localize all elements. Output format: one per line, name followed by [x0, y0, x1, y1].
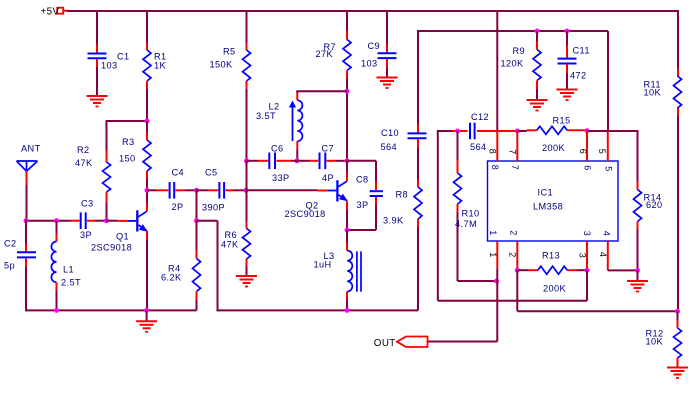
wire C12 left [437, 130, 439, 301]
junction R15-pin6 [585, 128, 590, 133]
power port +5V [57, 8, 63, 14]
svg-text:3: 3 [578, 253, 588, 258]
wire R3 bottom [146, 171, 148, 179]
svg-text:OUT: OUT [374, 338, 396, 349]
svg-text:C1: C1 [117, 52, 130, 62]
ground main [146, 310, 148, 321]
junction Q1 emitter ground [144, 308, 149, 313]
wire C4 left lead [147, 189, 156, 191]
wire R8 top lead [417, 179, 419, 187]
transistor Q2 2SC9018 [327, 190, 336, 192]
wire R12 bottom [677, 358, 679, 366]
wire R15 left lead [517, 130, 527, 132]
wire antenna stem [26, 171, 28, 185]
junction C12-pin7 [515, 129, 520, 134]
wire input node row [26, 220, 71, 222]
svg-text:R8: R8 [396, 190, 409, 200]
svg-text:C5: C5 [205, 168, 218, 178]
wire R15 to R14 [587, 130, 638, 132]
svg-text:3P: 3P [357, 200, 369, 210]
junction antenna-C2 [24, 218, 29, 223]
wire R4 bottom [196, 292, 198, 301]
svg-text:5p: 5p [4, 261, 15, 271]
junction L1 bottom [54, 308, 59, 313]
svg-text:47K: 47K [221, 240, 239, 250]
inductor L3 [347, 251, 352, 292]
inductor L2 [297, 100, 302, 141]
wire R11 top [677, 10, 679, 68]
svg-text:2: 2 [509, 230, 519, 235]
power rail +5V (top) [67, 10, 678, 12]
wire C4 right lead [176, 189, 185, 191]
wire R1 top [146, 11, 148, 43]
junction L2-C6-C7 [295, 158, 300, 163]
svg-text:8: 8 [488, 149, 498, 154]
ground under C11 [557, 89, 578, 91]
junction R7-L2 [345, 89, 350, 94]
antenna symbol [17, 160, 38, 162]
wire R2 top [106, 120, 108, 151]
wire C7 right lead [327, 160, 336, 162]
junction R4 top [194, 218, 199, 223]
wire L3 top [346, 230, 348, 243]
capacitor C4 [169, 182, 171, 199]
svg-text:150: 150 [119, 154, 136, 164]
svg-text:5: 5 [597, 149, 607, 154]
resistor R5 [243, 50, 251, 81]
wire R2 bottom [106, 192, 108, 203]
svg-text:6.2K: 6.2K [161, 273, 182, 283]
capacitor C8 [370, 190, 383, 192]
svg-text:3.5T: 3.5T [256, 111, 276, 121]
resistor R3 [143, 140, 151, 171]
wire C9 top [386, 11, 388, 44]
svg-text:C4: C4 [172, 168, 185, 178]
wire pin 6 [586, 131, 588, 161]
junction R11-R12 node [675, 309, 680, 314]
resistor R10 [454, 173, 462, 204]
wire node R1-R2-R3 [107, 120, 149, 122]
capacitor C11 [558, 58, 577, 60]
wire R9 top [536, 31, 538, 41]
ground under R12 [667, 367, 688, 369]
wire R5 top [246, 11, 248, 43]
svg-text:3P: 3P [80, 230, 92, 240]
svg-text:7: 7 [508, 149, 518, 154]
svg-text:2P: 2P [172, 202, 184, 212]
wire OUT [496, 281, 498, 342]
inductor L2 arrow [292, 107, 294, 141]
svg-text:R15: R15 [553, 116, 571, 126]
wire Q2 base wire [246, 189, 317, 191]
svg-text:6: 6 [578, 149, 588, 154]
resistor R9 [533, 50, 541, 81]
wire pin 7 [516, 131, 518, 161]
wire R5 bottom [246, 81, 248, 89]
svg-text:4: 4 [598, 252, 608, 257]
svg-text:4: 4 [601, 231, 611, 236]
wire C6 right lead [276, 160, 291, 162]
wire C10-R8 [417, 139, 419, 147]
wire R10 top [457, 131, 459, 161]
wire C6 left lead [247, 160, 259, 162]
svg-text:4P: 4P [322, 173, 334, 183]
capacitor C10 [408, 132, 427, 134]
wire Q1 base lead [107, 220, 118, 222]
svg-text:1K: 1K [154, 61, 167, 71]
wire L1 bottom [56, 282, 58, 290]
capacitor C9 [378, 52, 397, 54]
junction C5-R5-R6-Q2 [244, 188, 249, 193]
wire C3 left lead [71, 220, 80, 222]
wire R13 right lead [567, 269, 577, 271]
svg-text:3: 3 [582, 231, 592, 236]
svg-text:C7: C7 [322, 144, 335, 154]
svg-text:C9: C9 [368, 41, 381, 51]
wire L2 top row [296, 90, 347, 92]
wire C8 bottom [375, 197, 377, 205]
wire Q2 collector [346, 161, 348, 173]
svg-text:390P: 390P [202, 203, 225, 213]
resistor R14 [634, 190, 642, 222]
svg-text:4.7M: 4.7M [455, 219, 477, 229]
wire R13 left lead [517, 269, 528, 271]
transistor Q1 2SC9018 [127, 220, 136, 222]
svg-text:L2: L2 [269, 102, 280, 112]
resistor R13 [538, 266, 568, 274]
svg-text:1: 1 [488, 252, 498, 257]
ground under R6 [236, 275, 257, 277]
op-amp IC1 LM358 box [488, 161, 619, 241]
wire L2 bottom [296, 141, 298, 149]
wire C1 top [96, 11, 98, 45]
wire R4 top lead [196, 221, 198, 250]
wire R9 bottom [536, 81, 538, 90]
wire R14 top [637, 130, 639, 182]
svg-text:150K: 150K [210, 60, 234, 70]
svg-text:564: 564 [470, 142, 487, 152]
junction C7-R7-Q2 [345, 158, 350, 163]
ground rail left [26, 309, 197, 311]
svg-text:+5V: +5V [41, 6, 60, 17]
wire pin2 to R12 node [516, 270, 518, 311]
svg-text:2SC9018: 2SC9018 [285, 209, 326, 219]
resistor R15 [537, 126, 567, 134]
wire R3 top [146, 121, 148, 132]
svg-text:3.9K: 3.9K [383, 216, 404, 226]
wire C3 right lead [87, 220, 95, 222]
svg-text:C11: C11 [573, 46, 590, 56]
wire C12 right [477, 130, 517, 132]
resistor R4 [193, 259, 201, 292]
svg-text:27K: 27K [316, 49, 334, 59]
resistor R12 [674, 328, 682, 358]
svg-text:LM358: LM358 [533, 202, 563, 212]
junction C3-R2-Q1 base [104, 218, 109, 223]
svg-text:IC1: IC1 [538, 188, 554, 198]
svg-text:200K: 200K [543, 284, 567, 294]
wire R7 bottom [346, 71, 348, 80]
wire R5-R6 column [246, 161, 248, 191]
wire Q1 collector [146, 190, 148, 203]
junction R10-pin1 [494, 279, 499, 284]
resistor R11 [674, 76, 682, 108]
junction C12-R10 [455, 129, 460, 134]
capacitor C2 [17, 251, 36, 253]
svg-text:7: 7 [510, 165, 520, 170]
wire R4 node [196, 189, 198, 220]
ground under R9 [527, 99, 548, 101]
svg-text:1uH: 1uH [314, 260, 332, 270]
svg-text:120K: 120K [501, 59, 525, 69]
svg-text:C8: C8 [356, 175, 369, 185]
ground under C9 [377, 77, 398, 79]
wire C2 bottom [25, 259, 27, 267]
junction rail2-R9 [535, 29, 540, 34]
svg-text:564: 564 [381, 142, 398, 152]
wire C9 bottom [386, 59, 388, 67]
junction pin3-R13 [585, 268, 590, 273]
wire pin 2 [516, 241, 518, 270]
svg-text:R2: R2 [77, 145, 90, 155]
junction L3 ground [345, 308, 350, 313]
svg-text:5: 5 [604, 166, 614, 171]
wire C11 top [566, 31, 568, 45]
svg-text:ANT: ANT [21, 144, 41, 154]
svg-text:1: 1 [488, 230, 498, 235]
wire R10 bottom [457, 204, 459, 212]
svg-text:6: 6 [582, 165, 592, 170]
svg-text:472: 472 [570, 71, 587, 81]
junction C4-C5-R4 [194, 188, 199, 193]
svg-text:2SC9018: 2SC9018 [91, 243, 132, 253]
port OUT [397, 337, 428, 348]
wire R14 bottom [637, 222, 639, 230]
wire R11 bottom [677, 108, 679, 116]
svg-text:R6: R6 [225, 230, 238, 240]
junction Q2 emitter-C8 [345, 228, 350, 233]
svg-text:L1: L1 [63, 265, 74, 275]
wire pin 5 [607, 132, 609, 161]
junction pin4-R14 ground [635, 268, 640, 273]
junction rail2-C11 [565, 29, 570, 34]
wire C10 top [417, 30, 419, 125]
resistor R7 [343, 40, 351, 71]
svg-text:R5: R5 [223, 47, 236, 57]
svg-text:C10: C10 [381, 128, 399, 138]
svg-text:200K: 200K [542, 143, 566, 153]
capacitor C12 [469, 123, 471, 140]
wire R7 top [346, 11, 348, 31]
junction R5-C6 [244, 158, 249, 163]
wire R6 bottom [246, 259, 248, 266]
wire R4 node to ground column [197, 220, 218, 222]
svg-text:33P: 33P [272, 173, 290, 183]
wire pin 8 [496, 11, 498, 131]
svg-text:C3: C3 [81, 199, 94, 209]
svg-text:47K: 47K [75, 158, 93, 168]
capacitor C5 [218, 182, 220, 199]
wire Q2 emitter [346, 201, 348, 210]
capacitor C6 [268, 153, 270, 170]
wire L3 bottom [346, 292, 348, 300]
svg-text:R3: R3 [122, 137, 135, 147]
svg-text:10K: 10K [646, 337, 664, 347]
wire C7 left lead [297, 160, 309, 162]
junction R3-C4-Q1 [145, 188, 150, 193]
ground under C1 [87, 95, 108, 97]
svg-text:620: 620 [646, 200, 663, 210]
svg-text:C2: C2 [4, 239, 17, 249]
svg-text:C6: C6 [271, 144, 284, 154]
wire L1 top [56, 221, 58, 234]
svg-text:103: 103 [361, 59, 378, 69]
wire C8 top [346, 160, 376, 162]
junction pin2-R13 [515, 268, 520, 273]
svg-text:10K: 10K [644, 88, 662, 98]
svg-text:2: 2 [507, 252, 517, 257]
capacitor C1 [88, 53, 107, 55]
wire C2 top [25, 220, 27, 244]
wire rail2 [418, 30, 608, 32]
junction R1 bottom [145, 119, 150, 124]
svg-text:Q1: Q1 [116, 232, 129, 242]
wire R12 top [677, 311, 679, 320]
resistor R6 [243, 228, 251, 259]
svg-text:103: 103 [101, 61, 118, 71]
wire pin 4 [607, 241, 609, 270]
resistor R8 [414, 187, 422, 219]
ground under R14 [637, 270, 639, 281]
svg-text:C12: C12 [471, 112, 489, 122]
junction L1 top [54, 218, 59, 223]
wire pin 1 [496, 241, 498, 269]
wire C1 bottom [96, 59, 98, 67]
svg-text:R9: R9 [513, 46, 526, 56]
resistor R2 [103, 162, 111, 192]
svg-text:R13: R13 [542, 251, 560, 261]
wire pin 3 [586, 241, 588, 270]
wire C5 right lead [226, 189, 234, 191]
ground rail middle [218, 309, 419, 311]
svg-text:2.5T: 2.5T [61, 278, 81, 288]
inductor L1 [51, 242, 56, 283]
capacitor C7 [319, 153, 321, 170]
wire C12 to pin3 loop [438, 300, 587, 302]
capacitor C3 [80, 212, 82, 229]
wire R1 bottom [146, 81, 148, 89]
wire C11 bottom [566, 64, 568, 72]
wire R15 right lead [567, 129, 587, 131]
resistor R1 [143, 50, 151, 81]
wire R8 bottom [417, 219, 419, 227]
wire R6 top lead [246, 190, 248, 221]
wire C5 left lead [197, 189, 209, 191]
svg-text:8: 8 [490, 165, 500, 170]
svg-text:R10: R10 [462, 209, 480, 219]
wire Q1 emitter [146, 231, 148, 240]
